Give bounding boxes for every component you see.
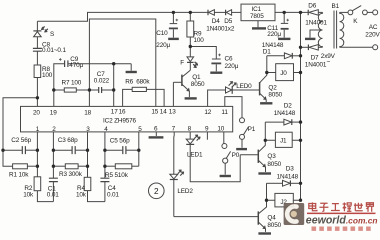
resistor R4 <box>84 177 105 201</box>
svg-text:1N4148: 1N4148 <box>277 173 299 180</box>
ground Q2 <box>260 102 272 104</box>
svg-text:R5 510k: R5 510k <box>105 172 129 179</box>
svg-text:1N4148: 1N4148 <box>274 110 296 117</box>
svg-text:5: 5 <box>138 126 142 133</box>
svg-text:J1: J1 <box>280 138 287 145</box>
svg-text:220μ: 220μ <box>156 42 170 49</box>
svg-text:8: 8 <box>188 126 192 133</box>
svg-text:12: 12 <box>204 109 211 116</box>
transformer B1 core <box>334 11 337 49</box>
diode D7 <box>301 45 323 51</box>
wire pin3 column <box>87 132 89 177</box>
LED LED1 <box>186 132 240 182</box>
wire top rail left <box>37 12 208 21</box>
svg-text:100: 100 <box>42 72 53 79</box>
svg-text:C5 56p: C5 56p <box>110 138 130 145</box>
svg-text:LED2: LED2 <box>177 188 193 195</box>
ground Q3 <box>258 172 271 174</box>
svg-text:C10: C10 <box>156 30 168 37</box>
svg-text:C6: C6 <box>225 55 233 62</box>
wire pin1 column <box>36 132 38 177</box>
svg-text:R3 300k: R3 300k <box>59 171 83 178</box>
resistor R8 <box>34 65 41 106</box>
svg-text:LED0: LED0 <box>236 83 252 90</box>
svg-text:10k: 10k <box>76 191 87 198</box>
svg-text:13: 13 <box>169 108 176 115</box>
resistor R9 <box>187 12 194 46</box>
switch K <box>340 6 378 15</box>
svg-text:7805: 7805 <box>250 13 264 20</box>
svg-text:D6: D6 <box>308 3 316 10</box>
relay J2 <box>267 193 301 207</box>
ground IC1 <box>257 21 259 28</box>
ground P1 <box>236 148 247 150</box>
svg-text:220μ: 220μ <box>225 63 239 70</box>
svg-text:IC2 ZH9576: IC2 ZH9576 <box>103 118 137 125</box>
svg-text:2: 2 <box>52 126 56 133</box>
resistor R5 <box>105 132 139 169</box>
ground C9 wire <box>126 64 137 72</box>
resistor R1 <box>13 164 38 169</box>
transformer B1 primary <box>340 12 344 47</box>
svg-text:0.01: 0.01 <box>47 192 59 199</box>
wire DC bus vertical <box>300 12 302 200</box>
svg-text:1N4001x2: 1N4001x2 <box>206 25 235 32</box>
svg-text:1N4001: 1N4001 <box>305 19 327 26</box>
svg-text:15: 15 <box>151 108 158 115</box>
svg-text:2: 2 <box>154 187 159 196</box>
wire pin18 to pin15 loop <box>89 19 155 106</box>
op-amp IC2 ZH9576 box <box>21 106 233 131</box>
LED LED2 <box>170 132 184 217</box>
svg-text:3: 3 <box>86 126 90 133</box>
svg-text:1N4001: 1N4001 <box>305 62 327 69</box>
svg-text:8050: 8050 <box>267 161 281 168</box>
diode D2 <box>265 119 300 140</box>
svg-text:C2 56p: C2 56p <box>11 137 31 144</box>
svg-text:IC1: IC1 <box>252 6 262 13</box>
svg-text:10: 10 <box>217 126 224 133</box>
switch P0 <box>222 132 231 175</box>
wire pin17 line <box>113 64 115 107</box>
svg-text:680k: 680k <box>136 78 150 85</box>
svg-text:220V: 220V <box>365 32 380 39</box>
wire IC1 output to bus <box>275 11 308 13</box>
capacitor C5 <box>105 146 139 154</box>
capacitor C9 <box>54 58 131 106</box>
svg-text:D7: D7 <box>311 54 319 61</box>
svg-text:F: F <box>180 60 184 67</box>
capacitor C2 <box>3 146 37 154</box>
LED F <box>187 47 198 71</box>
svg-text:6: 6 <box>154 126 158 133</box>
resistor R6 <box>123 87 165 106</box>
svg-text:R6: R6 <box>125 78 133 85</box>
node circled 2 <box>149 183 165 199</box>
svg-text:18: 18 <box>84 110 91 117</box>
wire pin 9 stub <box>206 132 208 140</box>
ground Q1 <box>185 97 197 99</box>
photodiode S <box>33 21 47 48</box>
svg-text:0.022: 0.022 <box>94 78 110 85</box>
svg-text:9: 9 <box>205 126 209 133</box>
transistor Q2 <box>233 73 267 103</box>
capacitor C11 <box>281 12 289 37</box>
ground Q4 <box>258 232 271 234</box>
wire AC bottom <box>340 45 378 50</box>
capacitor C8 <box>33 48 42 65</box>
svg-text:C3 68p: C3 68p <box>58 137 78 144</box>
svg-text:220μ: 220μ <box>267 31 281 38</box>
ground C6 <box>210 71 222 73</box>
relay J0 <box>267 64 301 81</box>
ground C10 <box>168 38 179 40</box>
svg-text:100: 100 <box>194 37 205 44</box>
diode D4 <box>208 10 226 16</box>
switch P1 <box>225 97 249 148</box>
resistor R7 <box>54 88 99 92</box>
watermark eeworld logo <box>284 202 378 230</box>
transistor Q4 <box>174 200 267 232</box>
svg-text:R7 100: R7 100 <box>62 80 82 87</box>
relay J1 <box>265 132 300 147</box>
ground pin 6 <box>149 132 164 138</box>
op IC1 7805 box <box>241 4 275 21</box>
capacitor C1 <box>49 132 58 202</box>
svg-text:Q4: Q4 <box>267 214 276 221</box>
svg-text:D3: D3 <box>286 165 294 172</box>
transformer B1 secondary <box>318 12 322 47</box>
svg-text:S: S <box>50 31 54 38</box>
ground C11 <box>278 38 290 40</box>
capacitor C6 <box>190 47 221 72</box>
svg-text:D5: D5 <box>224 18 232 25</box>
svg-text:D2: D2 <box>284 103 292 110</box>
capacitor C3 <box>53 146 87 154</box>
svg-text:7: 7 <box>172 126 176 133</box>
svg-text:R1 10k: R1 10k <box>9 172 29 179</box>
svg-text:10k: 10k <box>23 191 34 198</box>
capacitor C7 <box>99 87 114 93</box>
svg-text:B1: B1 <box>332 3 340 10</box>
svg-text:D4: D4 <box>212 18 220 25</box>
diode D1 <box>267 53 301 73</box>
diode D3 <box>267 180 301 200</box>
svg-text:1: 1 <box>36 126 40 133</box>
diode D6 <box>308 10 322 16</box>
svg-text:4: 4 <box>104 126 108 133</box>
svg-text:P1: P1 <box>248 126 256 133</box>
svg-text:P0: P0 <box>232 152 240 159</box>
svg-text:16: 16 <box>119 109 126 116</box>
svg-text:LED1: LED1 <box>187 151 203 158</box>
watermark title glyphs (dian zi gong cheng shi jie) <box>309 202 374 211</box>
svg-text:AC: AC <box>369 24 378 31</box>
capacitor C4 <box>100 132 109 202</box>
svg-text:Q2: Q2 <box>268 84 277 91</box>
svg-text:0.01: 0.01 <box>107 192 119 199</box>
svg-text:~: ~ <box>327 59 331 66</box>
diode D5 <box>226 10 241 16</box>
LED LED0 <box>208 81 260 106</box>
svg-text:8050: 8050 <box>191 81 205 88</box>
svg-text:Q3: Q3 <box>267 153 276 160</box>
ground P0 <box>220 175 231 177</box>
svg-text:0.01~0.1: 0.01~0.1 <box>42 47 66 54</box>
wire left edge loop <box>3 98 37 166</box>
svg-text:19: 19 <box>50 110 57 117</box>
svg-text:D1: D1 <box>263 48 271 55</box>
svg-text:8050: 8050 <box>267 222 281 229</box>
svg-text:20: 20 <box>33 110 40 117</box>
transistor Q3 <box>240 140 265 172</box>
ground B1 center tap <box>305 38 315 40</box>
transistor Q1 <box>173 70 190 106</box>
capacitor C10 <box>169 12 178 37</box>
svg-text:8050: 8050 <box>268 91 282 98</box>
svg-text:11: 11 <box>221 109 228 116</box>
wire B1 center tap <box>310 30 323 38</box>
resistor R2 <box>34 177 53 202</box>
svg-text:470μ: 470μ <box>69 62 83 69</box>
svg-text:14: 14 <box>160 108 167 115</box>
svg-text:17: 17 <box>111 109 118 116</box>
svg-text:eeworld.com.cn: eeworld.com.cn <box>306 215 378 227</box>
resistor R3 <box>53 164 87 169</box>
svg-text:J0: J0 <box>280 70 287 77</box>
